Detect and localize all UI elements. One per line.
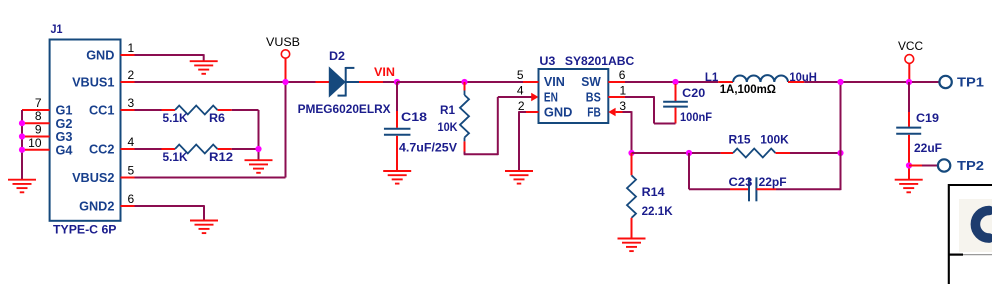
J1 right pin stub y=177.5 (121, 177, 135, 179)
junction dot G2 (19, 120, 25, 126)
test point TP2 circle (938, 159, 950, 171)
svg-text:100nF: 100nF (680, 110, 712, 124)
resistor R12 left stub (162, 148, 176, 150)
J1 right pin stub y=82 (121, 81, 135, 83)
capacitor C23 plates (748, 177, 750, 201)
svg-text:2: 2 (518, 99, 525, 113)
resistor R6 zigzag (175, 106, 218, 115)
junction dot R12-ground (255, 146, 261, 152)
svg-text:R6: R6 (209, 111, 225, 125)
capacitor C23 left stub (730, 188, 749, 190)
wire R15 to output node (790, 152, 841, 154)
J1 right pin stub y=149 (121, 148, 135, 150)
svg-text:C18: C18 (401, 110, 427, 124)
wire pin1 GND to ground (135, 54, 204, 56)
EN input arrow (531, 93, 538, 102)
svg-text:6: 6 (128, 192, 135, 206)
resistor R14 top stub (631, 153, 633, 175)
svg-text:TP2: TP2 (957, 158, 984, 173)
wire R1 to EN (464, 152, 466, 155)
resistor R14 bottom stub (631, 218, 633, 239)
resistor R1 zigzag (460, 95, 469, 138)
svg-text:VUSB: VUSB (266, 35, 300, 49)
capacitor C20 bottom lead (675, 108, 677, 124)
wire R12 to ground junction (232, 148, 259, 150)
inductor L1 left stub (718, 81, 733, 83)
diode D2 cathode lead (346, 81, 359, 83)
power port VUSB stem (285, 58, 287, 82)
svg-text:R14: R14 (642, 185, 665, 199)
svg-text:5: 5 (517, 68, 524, 82)
ground VCC net (895, 179, 923, 181)
wire U3 GND to ground (519, 111, 526, 113)
svg-text:22.1K: 22.1K (642, 204, 673, 218)
junction dot C20 top (672, 79, 678, 85)
power port VCC circle (905, 55, 914, 64)
svg-text:1: 1 (128, 41, 135, 55)
diode D2 anode stub (316, 81, 330, 83)
wire C23 right branch (776, 188, 841, 190)
svg-text:10K: 10K (438, 120, 458, 134)
svg-text:C19: C19 (916, 111, 939, 125)
U3 SW pin stub (608, 81, 625, 83)
svg-text:100K: 100K (760, 132, 789, 146)
junction dot VIN (394, 79, 400, 85)
wire GND2 pin6 to ground (135, 205, 205, 207)
svg-text:22uF: 22uF (914, 141, 942, 155)
J1 right pin stub y=110 (121, 109, 135, 111)
svg-text:VIN: VIN (544, 75, 565, 89)
wire R6 to ground corner (232, 109, 259, 111)
junction dot rail-feedback (837, 79, 843, 85)
ground U3 (505, 170, 533, 172)
resistor R6 right stub (218, 109, 232, 111)
svg-text:PMEG6020ELRX: PMEG6020ELRX (298, 102, 391, 116)
connector J1 box (50, 40, 121, 221)
title block left border (948, 184, 950, 284)
svg-text:6: 6 (619, 68, 626, 82)
svg-text:GND: GND (544, 105, 573, 119)
svg-text:3: 3 (619, 99, 626, 113)
resistor R14 zigzag (627, 175, 636, 218)
junction dot VUSB rail (282, 79, 288, 85)
wire FB to divider (623, 111, 632, 113)
resistor R12 right stub (218, 148, 232, 150)
resistor R15 zigzag (733, 149, 776, 158)
svg-text:4: 4 (517, 84, 524, 98)
ground CC pulldowns (245, 159, 273, 161)
svg-text:R12: R12 (209, 150, 233, 164)
resistor R6 left stub (162, 109, 176, 111)
capacitor C18 top lead (396, 82, 398, 111)
capacitor C20 plates (663, 101, 688, 103)
power port VUSB circle (281, 50, 289, 58)
svg-text:9: 9 (35, 123, 42, 137)
inductor L1 right stub (788, 81, 804, 83)
capacitor C19 bottom lead (908, 135, 910, 180)
svg-text:GND: GND (86, 49, 114, 63)
wire TP2 stub (909, 165, 922, 167)
svg-text:G2: G2 (56, 117, 73, 131)
svg-text:5.1K: 5.1K (163, 150, 188, 164)
svg-text:22pF: 22pF (759, 175, 787, 189)
wire VBUS2 vertical to rail (285, 82, 287, 178)
capacitor C19 plates (896, 127, 921, 129)
capacitor C23 right stub (756, 188, 776, 190)
svg-text:EN: EN (544, 90, 558, 104)
resistor R1 bottom stub (464, 141, 466, 151)
svg-text:J1: J1 (51, 22, 63, 36)
svg-text:VBUS1: VBUS1 (72, 76, 114, 90)
wire VBUS rail left segment (135, 81, 316, 83)
svg-text:8: 8 (35, 109, 42, 123)
wire VCC node to TP1 (915, 81, 939, 83)
svg-text:3: 3 (128, 96, 135, 110)
diode D2 schottky top hook (346, 67, 355, 69)
svg-text:TYPE-C 6P: TYPE-C 6P (53, 223, 117, 237)
resistor R12 zigzag (175, 145, 218, 154)
ground G-pins net (8, 179, 36, 181)
wire SW to L1 (625, 81, 718, 83)
wire VBUS2 pin5 horizontal (135, 177, 286, 179)
junction dot G4 (19, 147, 25, 153)
capacitor C18 bottom lead (396, 136, 398, 171)
svg-text:1: 1 (620, 84, 627, 98)
title block divider thin (963, 254, 992, 256)
wire BS to C20 bottom (625, 96, 654, 98)
J1 left pin stub y=110 (22, 109, 50, 111)
U3 FB pin stub (616, 111, 623, 113)
J1 right pin stub y=206 (121, 205, 135, 207)
svg-text:U3: U3 (539, 54, 555, 68)
junction dot C23 left (686, 150, 692, 156)
resistor R15 right stub (776, 152, 791, 154)
svg-text:CC1: CC1 (89, 104, 114, 118)
svg-text:L1: L1 (705, 70, 719, 84)
wire CC1 to R6 (135, 109, 162, 111)
svg-text:BS: BS (586, 90, 601, 104)
resistor R1 top lead (464, 91, 466, 96)
U3 GND pin stub (526, 111, 539, 113)
svg-text:TP1: TP1 (957, 75, 984, 90)
junction dot FB node (628, 150, 634, 156)
svg-text:C20: C20 (682, 86, 705, 100)
svg-text:GND2: GND2 (79, 200, 114, 214)
logo background patch (959, 199, 992, 252)
junction dot TP2 (906, 162, 912, 168)
wire output node vertical to rail (840, 82, 842, 153)
J1 right pin stub y=55 (121, 54, 135, 56)
diode D2 cathode bar (345, 67, 347, 97)
ground R14 (618, 238, 646, 240)
svg-text:4.7uF/25V: 4.7uF/25V (399, 141, 457, 155)
svg-text:VBUS2: VBUS2 (72, 171, 114, 185)
resistor R15 left stub (721, 152, 733, 154)
title block divider thick (948, 254, 963, 256)
svg-text:D2: D2 (329, 49, 345, 63)
diode D2 schottky bottom hook (338, 95, 346, 97)
svg-text:5: 5 (128, 163, 135, 177)
svg-text:G1: G1 (56, 104, 73, 118)
svg-text:4: 4 (128, 135, 135, 149)
junction dot R15 right (837, 150, 843, 156)
J1 left pin stub y=149.8 (22, 149, 50, 151)
junction dot VCC (906, 79, 912, 85)
title block top border (948, 184, 992, 186)
test point TP1 circle (939, 76, 951, 88)
ground GND2 net (190, 220, 218, 222)
J1 left pin stub y=136.5 (22, 136, 50, 138)
U3 BS pin stub (608, 96, 625, 98)
svg-text:G4: G4 (56, 143, 73, 157)
FB input arrow (608, 108, 615, 117)
svg-text:VCC: VCC (898, 39, 923, 53)
diode D2 triangle (329, 68, 345, 97)
svg-text:G3: G3 (56, 130, 73, 144)
op-amp U3 box (539, 69, 609, 123)
svg-text:CC2: CC2 (89, 143, 114, 157)
svg-text:C23: C23 (729, 175, 753, 189)
junction dot G3 (19, 133, 25, 139)
resistor R1 top stub (464, 82, 466, 91)
ground C18 (383, 170, 411, 172)
wire G-pins vertical bus (21, 110, 23, 180)
capacitor C20 top lead (675, 84, 677, 101)
ground pin1 net (190, 60, 218, 62)
inductor L1 coil (733, 75, 788, 82)
svg-text:R15: R15 (729, 132, 751, 146)
wire diode to VIN node (383, 81, 397, 83)
wire C23 left branch (688, 153, 690, 189)
svg-text:FB: FB (587, 105, 601, 119)
svg-text:SW: SW (581, 75, 601, 89)
svg-text:R1: R1 (440, 103, 455, 117)
junction dot R1 top (461, 79, 467, 85)
capacitor C18 plates (384, 128, 411, 130)
svg-text:SY8201ABC: SY8201ABC (565, 54, 635, 68)
power port VCC stem (908, 63, 910, 82)
svg-text:5.1K: 5.1K (163, 111, 188, 125)
wire FB node to R15 (632, 152, 721, 154)
svg-text:7: 7 (35, 96, 42, 110)
wire L1 to VCC node (804, 81, 934, 83)
J1 left pin stub y=123.2 (22, 122, 50, 124)
svg-text:2: 2 (128, 68, 135, 82)
resistor R1 bottom lead (464, 138, 466, 142)
wire VIN node to U3 (397, 81, 523, 83)
wire CC2 to R12 (135, 148, 162, 150)
svg-text:VIN: VIN (374, 65, 395, 79)
capacitor C19 top lead (908, 82, 910, 112)
U3 VIN pin stub (523, 81, 539, 83)
logo letter C (975, 211, 989, 239)
svg-text:1A,100mΩ: 1A,100mΩ (720, 82, 777, 96)
diode D2 cathode stub (359, 81, 383, 83)
svg-text:10: 10 (28, 136, 42, 150)
